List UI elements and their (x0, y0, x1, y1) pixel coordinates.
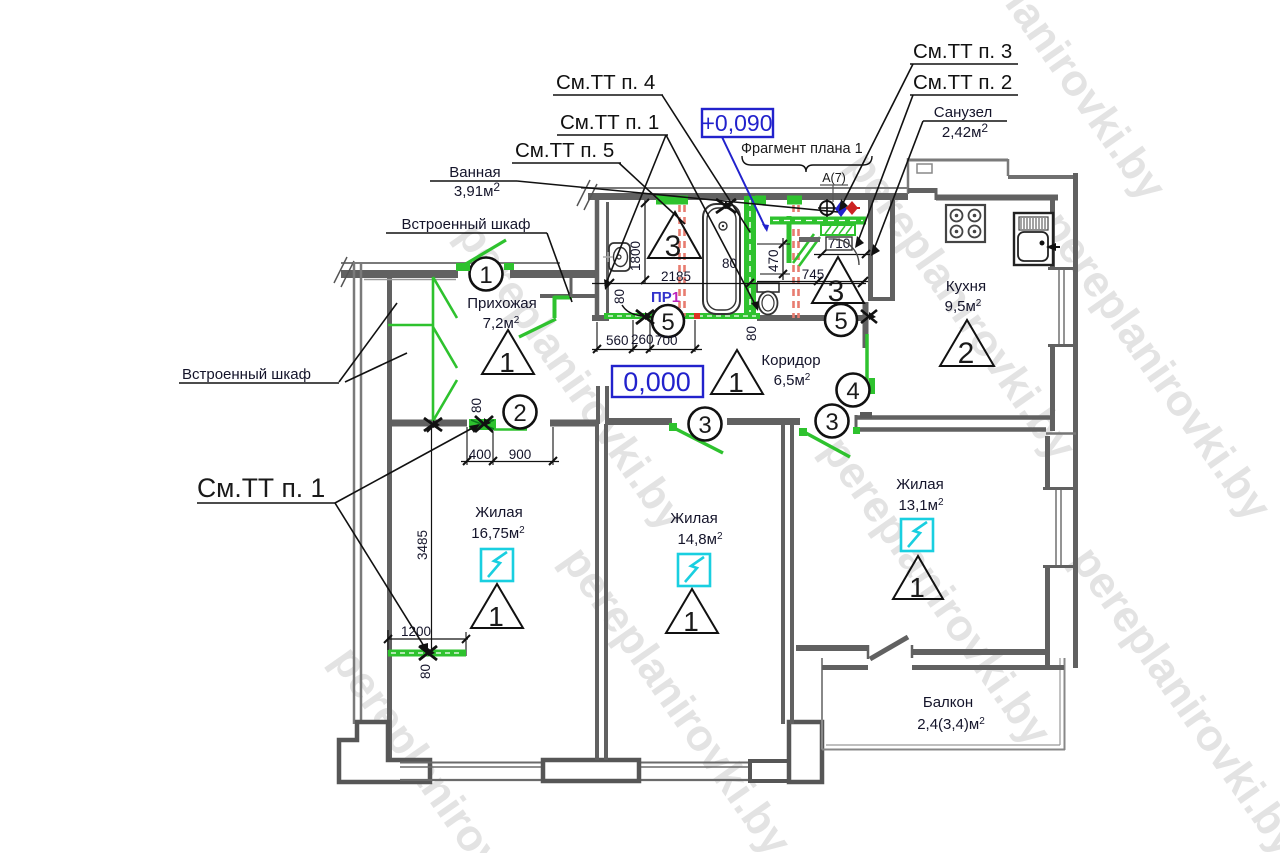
watermark tile 3 (837, 143, 1086, 470)
svg-text:Жилая: Жилая (896, 476, 943, 493)
window bottom band thin lines (400, 763, 793, 781)
wall hallway bottom segment left of door 2 (387, 420, 467, 427)
watermark tile 1 (447, 213, 696, 540)
new green wall top segment right of bathtub (755, 196, 802, 205)
svg-text:1: 1 (728, 367, 744, 398)
wall bottom-right corner block (789, 722, 822, 782)
triangle floor mark 1 room 13.1 (893, 556, 943, 603)
node circle 1 entry door (470, 258, 503, 291)
demolition red dashed wall in санузел (794, 205, 799, 318)
label Фрагмент плана 1 with brace (741, 141, 872, 172)
svg-text:16,75м2: 16,75м2 (471, 525, 525, 542)
wall kitchen top inner (908, 188, 1058, 200)
dimension 80 rotated at door 2 (469, 398, 484, 413)
watermark tile 2 (552, 538, 801, 853)
watermark tile 8 (927, 0, 1176, 210)
svg-text:5: 5 (661, 309, 674, 336)
wall left exterior inner face (387, 277, 392, 760)
door 3 left green leaf and hinge (669, 423, 723, 453)
triangle vent mark 3 in bathroom (648, 212, 701, 263)
svg-text:2: 2 (958, 337, 975, 370)
node circle 4 (837, 374, 870, 407)
svg-text:1: 1 (499, 347, 515, 378)
wall entry top thick left segment (341, 270, 458, 278)
svg-text:3: 3 (825, 409, 838, 436)
wall bottom center pier (543, 760, 639, 781)
wall bathroom left double face (597, 199, 608, 320)
svg-text:80: 80 (469, 398, 484, 413)
svg-text:Санузел: Санузел (934, 104, 992, 121)
demolition X mark at closet wall junction (424, 418, 442, 431)
window right wall lower (room 13.1) (1043, 489, 1078, 567)
node circle 3 right (816, 405, 849, 438)
wall bottom-left corner block (339, 722, 430, 782)
wall jog right side below kitchen (1046, 432, 1076, 435)
demolition red dashed wall in bathroom (680, 205, 685, 316)
svg-text:Коридор: Коридор (761, 352, 820, 369)
svg-text:+0,090: +0,090 (702, 110, 773, 136)
dimension 3485 vertical (415, 423, 436, 656)
callout См.ТТ п. 4 (553, 71, 750, 232)
wall right exterior inner face kitchen piers (1050, 198, 1055, 431)
room label Жилая 14.8 (670, 510, 723, 548)
triangle floor mark 1 Прихожая (482, 330, 534, 378)
wall right exterior outer line (1073, 173, 1078, 668)
watermark tile 4 (1032, 203, 1280, 530)
wall room 13.1 bottom outer face left of door (822, 665, 868, 670)
svg-text:400: 400 (469, 447, 492, 462)
svg-text:Кухня: Кухня (946, 278, 986, 295)
door balcony open leaf (dark diagonal) (868, 637, 908, 659)
triangle floor mark 2 Кухня (940, 320, 994, 370)
wall hallway bottom segment right of door 2 (550, 420, 598, 427)
new green wall bottom strip of bathroom (604, 313, 760, 319)
wall bathroom block top thin line (581, 187, 908, 189)
svg-text:0,000: 0,000 (623, 367, 691, 397)
svg-text:13,1м2: 13,1м2 (898, 497, 944, 514)
svg-text:2185: 2185 (661, 269, 691, 284)
vent duct hatched green box (821, 225, 855, 235)
svg-text:Встроенный шкаф: Встроенный шкаф (182, 366, 311, 383)
callout См.ТТ п. 1 left big with leaders (197, 424, 480, 653)
svg-text:1: 1 (683, 606, 699, 637)
demolition X mark on green strip (419, 646, 437, 660)
svg-text:2,4(3,4)м2: 2,4(3,4)м2 (917, 716, 985, 733)
toilet WC2 in санузел (757, 283, 779, 315)
door swing arc санузел (833, 239, 859, 265)
wall corridor left (between hallway and corridor) (598, 386, 607, 424)
svg-text:Фрагмент плана 1: Фрагмент плана 1 (741, 141, 863, 157)
watermark tile 5 (322, 638, 571, 853)
wall notch above kitchen top (917, 164, 932, 173)
svg-text:Ванная: Ванная (449, 164, 500, 181)
red marker dot on green wall (694, 313, 700, 319)
svg-text:А(7): А(7) (822, 171, 846, 185)
electric symbol room 16.75 (481, 549, 513, 581)
callout См.ТТ п. 3 with leader (839, 40, 1018, 211)
svg-text:См.ТТ п. 5: См.ТТ п. 5 (515, 139, 614, 162)
alcove gray wall piece (540, 294, 596, 298)
toilet WC1 in bathroom (603, 243, 630, 271)
svg-text:1200: 1200 (401, 624, 431, 639)
svg-text:2: 2 (513, 400, 526, 427)
dimension 2185 line (592, 269, 866, 287)
wall alcove vertical stub (570, 278, 573, 297)
wall room 13.1 bottom outer face right of door (912, 665, 1064, 670)
svg-text:Жилая: Жилая (475, 504, 522, 521)
elevation box 0,000 (612, 366, 703, 397)
elevation leader blue line (722, 137, 769, 232)
balcony outline thin rect (822, 658, 1065, 750)
dimension 80 vertical at corridor green wall (744, 326, 759, 341)
window right wall upper (kitchen) (1048, 269, 1078, 346)
svg-text:Жилая: Жилая (670, 510, 717, 527)
callout См.ТТ п. 1 (557, 111, 759, 311)
opening 710 label box (826, 236, 852, 251)
dimension 710 line (814, 250, 870, 258)
svg-text:700: 700 (655, 333, 678, 348)
survey benchmark circle-cross (818, 199, 836, 217)
alcove new green wall vertical (554, 296, 572, 318)
wall break marks left end of entry wall (334, 257, 354, 287)
svg-text:ПР1: ПР1 (651, 289, 680, 306)
svg-text:470: 470 (766, 249, 781, 272)
demolition X mark on bathroom bottom wall (636, 310, 654, 324)
callout Санузел with leader (871, 104, 1007, 256)
wall divider between living rooms 14.8 and 13.1 (783, 424, 792, 724)
svg-text:Прихожая: Прихожая (467, 295, 537, 312)
svg-text:См.ТТ п. 2: См.ТТ п. 2 (913, 71, 1012, 94)
survey blue diamond (835, 201, 847, 217)
svg-text:3: 3 (698, 412, 711, 439)
wall kitchen bottom / room 13.1 top double band (856, 412, 1052, 432)
room label Жилая 13.1 (896, 476, 944, 514)
node circle 3 left (689, 408, 722, 441)
node А(7) label with bracket (820, 171, 848, 202)
door 4 kitchen green leaf (867, 334, 875, 395)
wall bottom right pier (750, 761, 793, 781)
wall top-right step outline (908, 158, 1078, 194)
svg-text:3: 3 (665, 230, 682, 263)
wall bathroom block bottom gray left stub (592, 315, 609, 321)
svg-text:80: 80 (744, 326, 759, 341)
svg-text:См.ТТ п. 1: См.ТТ п. 1 (197, 473, 325, 503)
callout См.ТТ п. 2 with leader (855, 71, 1018, 248)
room label Кухня (945, 278, 986, 315)
callout Встроенный шкаф left with leaders (179, 303, 407, 383)
triangle vent mark 3 in санузел (812, 257, 864, 308)
svg-text:80: 80 (722, 256, 737, 271)
dimension 80 vertical at WC (612, 289, 643, 316)
callout Встроенный шкаф top with leader (386, 216, 572, 302)
dimension 560 260 700 chain (592, 320, 702, 353)
wall closet inner top line (364, 279, 456, 281)
wall corridor bottom segment 2 (727, 418, 800, 425)
dimension 745 line with text (757, 267, 868, 285)
door 1 entry green leaf (456, 240, 514, 271)
new green wall top segment in bathroom (656, 196, 688, 205)
svg-text:См.ТТ п. 4: См.ТТ п. 4 (556, 71, 655, 94)
svg-text:1: 1 (488, 601, 504, 632)
svg-text:Встроенный шкаф: Встроенный шкаф (402, 216, 531, 233)
callout Ванная with leader (430, 164, 838, 212)
room label Прихожая (467, 295, 537, 332)
dimension 1200 (384, 624, 470, 656)
wall left exterior outer double lines (354, 262, 361, 724)
watermark tile 7 (1062, 538, 1280, 853)
lintel gray stub санузел (799, 237, 820, 242)
svg-text:745: 745 (802, 267, 825, 282)
electric symbol room 14.8 (678, 554, 710, 586)
dimension 80 rotated below green strip (418, 664, 433, 679)
elevation box +0,090 (702, 109, 774, 137)
svg-text:260: 260 (631, 332, 654, 347)
bathroom door green leaf (519, 319, 556, 337)
node circle 2 (504, 396, 537, 429)
dimension extension line 1200 left (387, 630, 389, 650)
triangle floor mark 1 room 16.75 (471, 584, 523, 632)
wall bathroom block top thick (588, 193, 908, 200)
wall room 13.1 bottom left segment (796, 645, 868, 651)
wall entry top thick right segment (510, 270, 596, 278)
svg-text:5: 5 (834, 308, 847, 335)
dimension 470 vertical (757, 238, 790, 280)
svg-text:См.ТТ п. 3: См.ТТ п. 3 (913, 40, 1012, 63)
new green wall санузел diagonal pair (793, 234, 820, 266)
wall break marks left end of bathroom top wall (577, 180, 597, 210)
wall corridor right segment above door 4 (863, 302, 869, 348)
new green wall right of bathtub vertical (744, 196, 756, 315)
node circle 5 right (санузел) (825, 304, 857, 336)
demolition X mark on bathtub top (716, 199, 736, 213)
dimension 1800 vertical (628, 199, 649, 284)
watermark tile 6 (812, 428, 1061, 755)
svg-text:1: 1 (909, 572, 925, 603)
svg-text:80: 80 (418, 664, 433, 679)
new green wall санузел horizontal strip (770, 217, 866, 225)
svg-text:Балкон: Балкон (923, 694, 973, 711)
door 3 right green leaf and hinge (799, 427, 860, 457)
dimension 400 900 chain (461, 427, 559, 465)
closet green shelf horizontal (388, 324, 433, 327)
room label Коридор (761, 352, 820, 389)
svg-text:3485: 3485 (415, 530, 430, 560)
survey red diamond (846, 201, 860, 215)
svg-text:4: 4 (846, 378, 859, 405)
new green wall strip bottom of room 16.75 (388, 650, 466, 657)
triangle floor mark 1 room 14.8 (666, 589, 718, 637)
svg-text:См.ТТ п. 1: См.ТТ п. 1 (560, 111, 659, 134)
svg-text:560: 560 (606, 333, 629, 348)
label ПР1 (651, 289, 680, 306)
demolition X mark at door 2 (475, 416, 493, 432)
dimension 80 text near bathtub right (722, 256, 737, 271)
svg-text:14,8м2: 14,8м2 (677, 531, 723, 548)
kitchen sink (1014, 213, 1060, 265)
stove 4 burners (946, 205, 985, 242)
svg-text:1: 1 (479, 262, 492, 289)
wall right exterior inner face room 13.1 piers (1045, 436, 1050, 666)
wire entry top wall thin line (341, 262, 560, 264)
electric symbol room 13.1 (901, 519, 933, 551)
svg-text:900: 900 (509, 447, 532, 462)
room label Жилая 16.75 (471, 504, 525, 542)
wall corridor bottom segment 1 (606, 418, 672, 425)
svg-text:80: 80 (612, 289, 627, 304)
wall divider between living rooms 16.75 and 14.8 (597, 424, 606, 760)
demolition X mark at corridor right wall junction (861, 310, 877, 323)
new green infill at door 2 with dark X (469, 419, 527, 430)
wall room 13.1 bottom right segment (912, 645, 1050, 658)
callout См.ТТ п. 5 (512, 139, 685, 224)
triangle floor mark 1 Коридор (711, 350, 763, 398)
new green wall санузел vertical (787, 216, 792, 263)
wall bathroom block bottom gray right part (757, 315, 868, 321)
room label Балкон (917, 694, 985, 733)
closet green folding door diagonals (433, 277, 457, 421)
svg-text:1800: 1800 (628, 241, 643, 271)
closet new green wall vertical (432, 277, 435, 421)
wall санузел/kitchen divider double face (868, 199, 895, 300)
node circle 5 left (bathroom) (652, 305, 684, 337)
bathtub (703, 204, 740, 314)
